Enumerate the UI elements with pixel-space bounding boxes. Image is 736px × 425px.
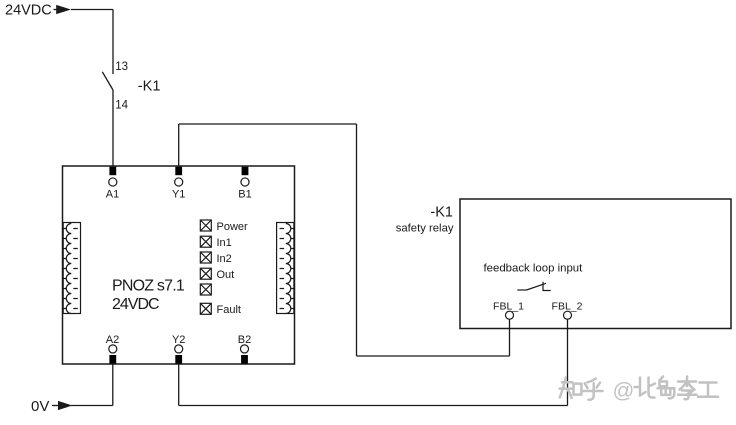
watermark char zhi <box>560 378 582 399</box>
LED Out <box>200 268 211 279</box>
terminal Y1 <box>172 167 185 201</box>
watermark char gong <box>698 383 718 397</box>
svg-text:24VDC: 24VDC <box>5 3 52 19</box>
watermark char dao <box>658 377 675 399</box>
contact -K1 blade 13-14 <box>102 72 113 90</box>
LED In2 <box>200 252 211 263</box>
terminal A2 <box>106 334 119 364</box>
terminal A1 <box>106 167 119 201</box>
wire FBL_2 drop <box>567 319 569 405</box>
node 24VDC supply arrow <box>54 5 72 14</box>
wire A2 drop <box>112 364 114 406</box>
svg-text:Y2: Y2 <box>172 334 185 346</box>
terminal B1 <box>238 167 251 201</box>
svg-text:Fault: Fault <box>217 304 241 316</box>
svg-text:PNOZ s7.1: PNOZ s7.1 <box>112 277 185 294</box>
watermark char bei <box>635 378 656 398</box>
svg-text:B1: B1 <box>238 189 251 201</box>
svg-text:B2: B2 <box>238 334 251 346</box>
PNOZ relay U1 outline <box>63 166 295 364</box>
pin FBL_1 <box>493 301 524 320</box>
watermark char li <box>678 377 697 400</box>
wire 24VDC feed horizontal <box>71 9 113 11</box>
wire Y2 drop <box>178 364 180 406</box>
contact feedback loop <box>517 282 550 291</box>
svg-text:In2: In2 <box>217 253 232 265</box>
LED In1 <box>200 236 211 247</box>
terminal B2 <box>238 334 251 364</box>
node 0V supply arrow <box>52 401 72 410</box>
svg-text:14: 14 <box>115 100 128 112</box>
svg-text:feedback loop input: feedback loop input <box>484 262 584 274</box>
wire top link Y1 to relay loop <box>179 123 357 125</box>
svg-text:0V: 0V <box>31 398 49 415</box>
svg-text:Y1: Y1 <box>172 189 185 201</box>
svg-text:@: @ <box>613 379 635 403</box>
watermark char hu <box>583 379 602 400</box>
wire Y1 riser <box>178 124 180 166</box>
connector J2 right <box>277 223 294 314</box>
wire A2 to 0V arrow <box>71 405 113 407</box>
wire 24VDC feed vertical to contact 13 <box>112 10 114 75</box>
LED Power <box>200 220 211 231</box>
wire bottom link to FBL_1 <box>357 355 510 357</box>
terminal Y2 <box>172 334 185 364</box>
wire contact 14 down to A1 <box>112 90 114 166</box>
svg-text:A2: A2 <box>106 334 119 346</box>
LED Fault <box>200 303 211 314</box>
svg-text:Out: Out <box>217 269 235 281</box>
wire FBL_1 riser <box>509 319 511 356</box>
wire bottom return FBL_2 to Y2 <box>179 405 568 407</box>
svg-text:-K1: -K1 <box>138 78 161 94</box>
svg-text:In1: In1 <box>217 237 232 249</box>
svg-text:safety relay: safety relay <box>396 223 454 235</box>
svg-text:24VDC: 24VDC <box>112 296 159 313</box>
svg-text:A1: A1 <box>106 189 119 201</box>
connector J1 left <box>63 223 80 314</box>
wire right drop to FBL_1 link <box>356 124 358 356</box>
relay K1 outline <box>460 199 731 329</box>
pin FBL_2 <box>552 301 583 320</box>
LED spare <box>200 284 211 295</box>
watermark zhihu <box>560 377 718 403</box>
svg-text:13: 13 <box>115 61 128 73</box>
svg-text:-K1: -K1 <box>430 205 453 221</box>
svg-text:Power: Power <box>217 221 249 233</box>
